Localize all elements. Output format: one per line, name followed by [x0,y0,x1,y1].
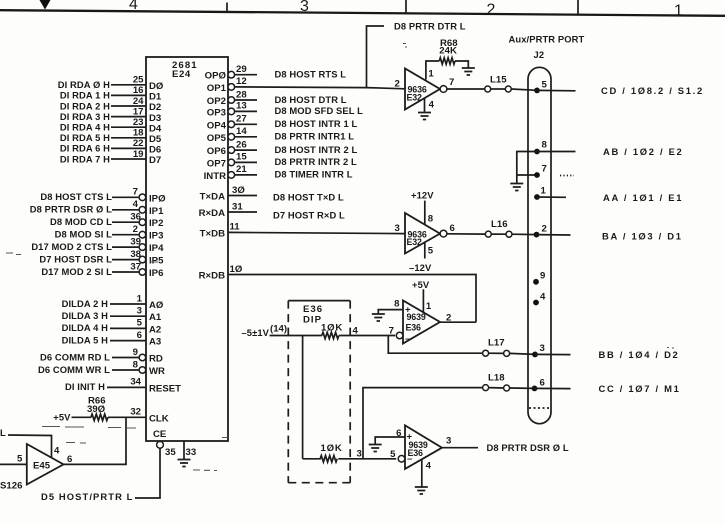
svg-text:25: 25 [133,75,144,86]
svg-text:AB / 1Ø2 / E2: AB / 1Ø2 / E2 [603,146,683,157]
contact pin 3 [532,352,538,358]
svg-text:1: 1 [674,3,683,20]
svg-text:1: 1 [541,186,547,197]
svg-text:6: 6 [137,330,142,341]
svg-text:8: 8 [133,359,139,370]
wire WR [112,369,139,371]
bubble IP0 [139,194,146,201]
wire branch to D8 PRTR DTR L [367,26,385,88]
wire pin 8 out [537,151,576,153]
wire pin7 node down to L17 [388,336,482,354]
svg-text:1Ø: 1Ø [230,264,243,275]
wire into E45 pin 4 [8,435,52,458]
svg-text:4: 4 [54,446,60,457]
svg-text:D3: D3 [149,113,161,124]
bubble IP5 [139,256,146,263]
svg-text:+: + [405,305,411,316]
svg-text:27: 27 [236,114,247,125]
contact pin 1 [534,194,540,200]
svg-text:DI RDA Ø H: DI RDA Ø H [58,79,110,90]
svg-text:D5 HOST/PRTR L: D5 HOST/PRTR L [41,491,134,502]
svg-text:D8 PRTR DSR Ø L: D8 PRTR DSR Ø L [30,204,112,215]
svg-text:RESET: RESET [149,383,181,394]
svg-text:OP7: OP7 [207,158,226,169]
wire receiver output [442,447,478,449]
bubble RD [139,354,146,361]
svg-text:OP5: OP5 [207,133,227,144]
svg-text:39: 39 [130,236,141,247]
svg-text:A2: A2 [149,324,161,335]
wire OP4 stub [235,123,257,125]
svg-text:BA / 1Ø3 / D1: BA / 1Ø3 / D1 [602,230,683,241]
svg-text:D7: D7 [149,155,161,166]
wire L18 to J2 pin 6 [510,387,535,389]
contact pin 2 [534,232,540,238]
pin 6 wire to ground [375,437,405,445]
svg-text:37: 37 [130,261,141,272]
svg-text:WR: WR [149,366,165,377]
svg-text:D8 MOD CD L: D8 MOD CD L [50,216,112,227]
wire L15 to J2 pin 5 [511,89,537,90]
svg-text:22: 22 [133,138,144,149]
svg-text:E32: E32 [407,93,423,103]
zone tick 2/1 [577,0,579,15]
wire TxDB to driver E32 pin 3 [228,232,405,233]
svg-text:BB / 1Ø4 / D2: BB / 1Ø4 / D2 [599,349,680,360]
svg-text:J2: J2 [534,49,545,60]
svg-text:DI RDA 4 H: DI RDA 4 H [60,122,110,133]
wire D6 [111,147,146,149]
bubble OP6 [228,147,235,154]
ground at pin 33 [178,460,191,467]
wire OP5 stub [235,136,257,138]
bubble OP7 [228,159,235,166]
svg-text:DI RDA 3 H: DI RDA 3 H [60,111,110,122]
wire IP0 [112,196,139,198]
svg-text:7: 7 [542,164,547,175]
wire +5V to R66 [72,416,92,418]
wire 10K to receiver pin 7 [339,335,395,337]
wire OP1 to driver E32 pin 2 [235,87,405,89]
wire A1 [110,315,146,317]
svg-text:17: 17 [133,106,144,117]
svg-text:16: 16 [133,85,144,96]
svg-text:+12V: +12V [411,189,434,200]
svg-text:D6 COMM RD L: D6 COMM RD L [40,351,110,362]
resistor pack E36 DIP dashed outline [288,300,350,302]
resistor R66 [91,414,108,420]
svg-text:DI RDA 1 H: DI RDA 1 H [60,90,110,101]
svg-text:L18: L18 [488,373,505,384]
pin 8 wire to ground [378,310,403,314]
svg-text:39Ø: 39Ø [87,404,106,415]
output bubble pin 7 [440,86,447,93]
svg-text:–: – [407,453,413,464]
bubble OP2 [228,97,235,104]
svg-text:6: 6 [450,223,455,234]
svg-text:2: 2 [395,79,400,90]
wire TxDA stub [228,195,257,197]
wire D5 [111,137,146,139]
bead L15 [485,86,491,92]
bubble OP0 [228,71,235,78]
svg-text:D6: D6 [149,145,161,156]
svg-text:DILDA 5 H: DILDA 5 H [62,334,109,345]
svg-text:D7 HOST DSR L: D7 HOST DSR L [39,253,112,264]
bubble IP6 [139,269,146,276]
wire output to L16 [447,233,485,235]
pin 1 wire [422,289,424,312]
zone tick 3/2 [405,0,407,13]
svg-text:L16: L16 [491,219,508,230]
svg-text:DIP: DIP [303,315,322,326]
svg-text:24: 24 [133,96,144,107]
svg-text:1: 1 [137,293,143,304]
pin 1 wire [426,61,439,80]
svg-text:D8 PRTR DSR Ø L: D8 PRTR DSR Ø L [487,442,569,453]
IC E24 2681 body [146,57,228,441]
wire OP6 stub [235,149,257,151]
svg-text:1: 1 [428,68,434,79]
svg-text:–5±1V: –5±1V [241,327,269,338]
wire IP2 [112,221,139,223]
svg-text:AA / 1Ø1 / E1: AA / 1Ø1 / E1 [603,192,683,203]
svg-text:CLK: CLK [149,413,169,424]
svg-text:28: 28 [236,89,247,100]
wire 10K to receiver pin 5 [338,458,396,460]
svg-text:1ØK: 1ØK [321,443,343,454]
contact pin 9 [533,279,539,285]
revision marker triangle [40,0,51,10]
svg-text:4: 4 [540,292,546,303]
svg-text:DØ: DØ [149,81,164,92]
input bubble pin 5 [398,456,405,463]
wire RxDB to receiver output [228,275,476,323]
svg-text:2: 2 [133,224,138,235]
zone tick 4/3 [226,3,228,12]
bead L18 [483,385,489,391]
svg-text:5: 5 [542,80,548,91]
svg-text:3: 3 [137,306,142,317]
wire D0 [111,84,146,86]
svg-text:5: 5 [428,246,434,257]
svg-text:+5V: +5V [412,279,430,290]
buffer E45 [27,444,64,485]
svg-text:IPØ: IPØ [149,193,166,204]
ground at J2 [510,184,523,191]
svg-text:4: 4 [133,199,139,210]
receiver U 9639 E36 [403,301,440,344]
svg-text:9: 9 [133,347,138,358]
wire L17 to J2 pin 3 [510,353,535,354]
svg-text:7: 7 [449,77,454,88]
svg-text:D8 HOST RTS L: D8 HOST RTS L [275,69,347,80]
scan noise marks [6,44,674,471]
svg-text:D6 COMM WR L: D6 COMM WR L [38,364,110,375]
svg-text:D8 PRTR DTR L: D8 PRTR DTR L [394,20,466,31]
svg-text:OPØ: OPØ [205,71,227,82]
svg-text:26: 26 [236,139,247,150]
wire D2 [111,105,146,107]
svg-text:Aux/PRTR PORT: Aux/PRTR PORT [509,34,585,45]
svg-text:4: 4 [426,461,432,472]
svg-text:D7 HOST R×D L: D7 HOST R×D L [273,209,345,220]
svg-text:38: 38 [130,249,141,260]
contact pin 8 [534,149,540,155]
svg-text:6: 6 [540,378,545,389]
noise dots [560,175,574,177]
svg-text:OP2: OP2 [207,96,226,107]
svg-text:OP6: OP6 [207,146,226,157]
svg-text:5: 5 [137,318,143,329]
wire D1 [111,94,146,96]
output bubble pin 6 [440,230,447,237]
bead L17 [483,350,489,356]
wire D4 [111,126,146,128]
svg-text:D8 HOST DTR L: D8 HOST DTR L [275,94,347,105]
svg-text:T×DB: T×DB [200,228,225,239]
svg-text:5: 5 [17,454,23,465]
svg-text:18: 18 [133,128,144,139]
svg-text:1: 1 [426,301,432,312]
svg-text:33: 33 [186,447,197,458]
ground at pin 8 [372,314,385,321]
wire OP3 stub [235,110,257,112]
svg-text:8: 8 [428,214,434,225]
wire IP1 [112,209,139,211]
svg-text:–: – [405,334,411,345]
svg-text:IP6: IP6 [149,268,163,279]
bubble IP3 [139,231,146,238]
wire OP0 stub [235,74,257,76]
svg-text:DILDA 3 H: DILDA 3 H [62,310,109,321]
svg-text:9: 9 [540,271,545,282]
wire D3 [111,116,146,118]
svg-text:5: 5 [390,449,396,460]
pin 35 CE bubble [157,441,164,448]
svg-text:T×DA: T×DA [200,192,225,203]
svg-text:CD / 1Ø8.2 / S1.2: CD / 1Ø8.2 / S1.2 [601,85,704,96]
junction to lower 10K [302,336,304,459]
wire -5V into DIP [270,335,322,337]
pin 33 stub [183,441,185,460]
svg-text:RD: RD [149,354,163,365]
svg-text:IP5: IP5 [149,256,164,267]
svg-text:29: 29 [236,64,247,75]
svg-text:L: L [0,427,6,438]
contact pin 4 [533,300,539,306]
svg-text:D8 MOD SI L: D8 MOD SI L [55,229,113,240]
bead L16 [485,231,491,237]
svg-text:AØ: AØ [149,300,164,311]
svg-text:4: 4 [129,0,138,13]
svg-text:3: 3 [540,343,545,354]
wire pin 5 out [537,89,576,91]
svg-text:32: 32 [130,407,141,418]
svg-text:(14): (14) [270,324,287,335]
svg-text:DI RDA 6 H: DI RDA 6 H [60,143,110,154]
bubble OP5 [228,134,235,141]
wire INTR stub [235,174,257,176]
svg-text:IP2: IP2 [149,218,163,229]
driver U 9636 E32 [405,213,440,254]
svg-text:DI RDA 5 H: DI RDA 5 H [60,132,110,143]
wire R68 to ground [455,61,468,68]
wire E45 input pin 5 [0,463,27,465]
svg-text:D2: D2 [149,102,161,113]
svg-text:CC / 1Ø7 / M1: CC / 1Ø7 / M1 [599,383,681,394]
wire IP5 [112,259,139,261]
svg-text:7: 7 [389,326,394,337]
wire RxDA stub [228,211,257,213]
svg-text:19: 19 [133,149,144,160]
svg-text:15: 15 [236,152,247,163]
pin 8 wire [424,201,426,225]
wire R66 to CLK pin 32 [108,416,146,418]
svg-text:35: 35 [165,447,176,458]
svg-text:R×DB: R×DB [199,271,225,282]
svg-text:A3: A3 [149,337,161,348]
svg-text:D1: D1 [149,92,162,103]
wire D7 [111,158,146,160]
svg-text:D8 TIMER INTR L: D8 TIMER INTR L [275,169,353,180]
wire receiver output [440,321,476,323]
svg-text:E45: E45 [33,461,51,472]
svg-text:3: 3 [446,436,451,447]
svg-text:D8 HOST T×D L: D8 HOST T×D L [273,191,344,202]
wire pin 2 out [537,234,571,236]
svg-text:IP4: IP4 [149,243,164,254]
svg-text:D17 MOD 2 CTS L: D17 MOD 2 CTS L [31,241,112,252]
pin 4 wire [421,460,423,488]
svg-text:11: 11 [230,222,241,233]
svg-text:E36: E36 [406,323,422,333]
svg-text:6: 6 [396,428,401,439]
wire OP7 stub [235,161,257,163]
svg-text:L17: L17 [488,338,505,349]
wire RD [112,357,139,359]
svg-text:4: 4 [429,100,435,111]
wire OP2 stub [235,99,257,101]
svg-text:–12V: –12V [409,262,432,273]
svg-text:E32: E32 [407,237,423,247]
svg-text:IP1: IP1 [149,206,164,217]
resistor R68 [439,58,455,64]
wire pin 1 out [537,196,566,198]
wire A0 [110,303,146,305]
contact pin 6 [532,386,538,392]
bubble OP4 [228,121,235,128]
svg-text:D4: D4 [149,123,162,134]
contact pin 7 [534,172,540,178]
svg-text:INTR: INTR [204,171,226,182]
svg-text:3: 3 [357,449,362,460]
svg-text:2: 2 [542,224,547,235]
svg-text:1ØK: 1ØK [321,323,343,334]
wire A3 [110,340,146,342]
wire junction from L18 [363,388,483,459]
contact pin 5 [534,88,540,94]
pin 4 wire [424,98,426,113]
svg-text:L15: L15 [490,75,507,86]
ground at R68 [462,68,475,75]
input bubble pin 7 [396,332,403,339]
svg-text:6: 6 [67,454,72,465]
ground at pin 6 [369,445,382,452]
svg-text:R×DA: R×DA [199,208,225,219]
svg-text:8: 8 [542,140,548,151]
wire IP6 [112,271,139,273]
svg-text:31: 31 [232,201,243,212]
svg-text:D8 HOST CTS L: D8 HOST CTS L [40,191,112,202]
border top line [0,10,725,16]
svg-text:D8 MOD SFD SEL L: D8 MOD SFD SEL L [275,105,364,116]
svg-text:DI RDA 2 H: DI RDA 2 H [60,100,110,111]
bubble INTR [228,172,235,179]
svg-text:OP4: OP4 [207,120,227,131]
svg-text:D8 PRTR INTR 2 L: D8 PRTR INTR 2 L [275,156,358,167]
svg-text:OP3: OP3 [207,107,226,118]
svg-text:2: 2 [487,2,496,19]
wire pin 3 out [535,353,571,355]
svg-text:DILDA 2 H: DILDA 2 H [62,298,109,309]
driver U 9636 E32 [405,69,440,110]
svg-text:S126: S126 [0,481,22,492]
ground at driver pin 4 [418,113,431,120]
dashed separator near bottom [529,407,550,409]
wire pins 8-7 to ground [517,152,537,184]
wire IP3 [112,234,139,236]
svg-text:DI INIT H: DI INIT H [65,381,105,392]
svg-text:DILDA 4 H: DILDA 4 H [62,322,109,333]
svg-text:D8 PRTR INTR1 L: D8 PRTR INTR1 L [275,131,355,142]
resistor 10K lower [303,456,338,462]
wire output to L15 [447,88,485,90]
pin 5 wire [424,242,426,259]
bubble IP1 [139,207,146,214]
svg-text:D5: D5 [149,134,162,145]
bubble IP4 [139,244,146,251]
svg-text:12: 12 [236,76,247,87]
wire A2 [110,327,146,329]
wire IP4 [112,246,139,248]
bubble IP2 [139,219,146,226]
svg-text:IP3: IP3 [149,231,163,242]
svg-text:21: 21 [236,164,247,175]
bubble WR [139,367,146,374]
ground at pin 4 [415,487,428,494]
receiver U 9639 E36 [405,425,442,469]
svg-text:+: + [407,432,413,443]
svg-text:DI RDA 7 H: DI RDA 7 H [60,153,110,164]
svg-text:36: 36 [130,212,141,223]
svg-text:24K: 24K [439,46,457,57]
wire pin 6 out [535,387,571,389]
svg-text:D17 MOD 2 SI L: D17 MOD 2 SI L [41,266,112,277]
svg-text:3: 3 [300,0,309,15]
svg-text:13: 13 [236,101,247,112]
svg-text:8: 8 [394,299,400,310]
svg-text:23: 23 [133,117,144,128]
wire E45 output to CLK node [64,417,127,464]
svg-text:E24: E24 [172,69,191,80]
connector J2 body [528,67,551,423]
svg-text:14: 14 [236,126,247,137]
bubble OP1 [228,84,235,91]
svg-text:D8 HOST INTR 1 L: D8 HOST INTR 1 L [275,118,358,129]
svg-text:A1: A1 [149,312,162,323]
wire CE to D5 HOST/PRTR L [135,448,160,498]
